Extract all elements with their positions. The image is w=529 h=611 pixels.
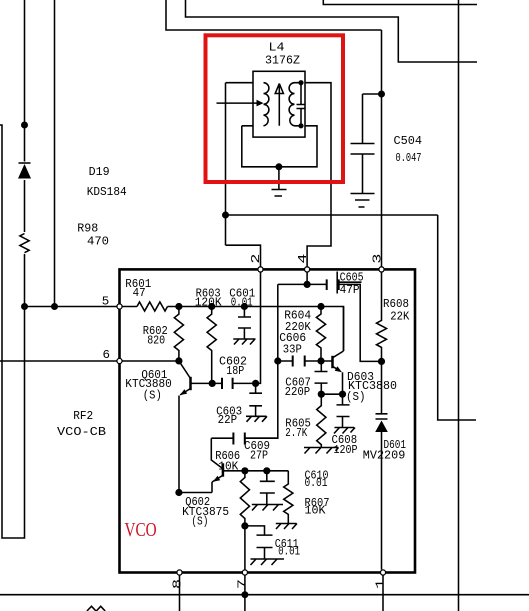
svg-text:22P: 22P xyxy=(218,414,238,427)
svg-text:5: 5 xyxy=(102,296,110,309)
svg-text:33P: 33P xyxy=(283,344,302,357)
svg-text:(S): (S) xyxy=(143,389,162,402)
svg-text:MV2209: MV2209 xyxy=(363,449,406,462)
svg-text:18P: 18P xyxy=(226,365,244,378)
svg-text:1: 1 xyxy=(375,579,388,589)
svg-text:120P: 120P xyxy=(334,444,358,457)
svg-text:2: 2 xyxy=(250,253,263,263)
svg-text:6: 6 xyxy=(103,349,111,362)
svg-text:C504: C504 xyxy=(394,135,423,148)
svg-text:7: 7 xyxy=(237,579,250,589)
svg-text:3: 3 xyxy=(372,253,385,263)
svg-text:220P: 220P xyxy=(285,386,311,399)
svg-text:R98: R98 xyxy=(77,222,98,235)
svg-text:KDS184: KDS184 xyxy=(87,186,127,199)
svg-text:10K: 10K xyxy=(305,504,326,517)
svg-text:D19: D19 xyxy=(89,166,110,179)
svg-text:RF2: RF2 xyxy=(73,410,93,423)
svg-text:4: 4 xyxy=(297,253,310,263)
svg-text:470: 470 xyxy=(87,236,109,249)
svg-text:2.7K: 2.7K xyxy=(285,427,307,440)
svg-text:VCO-CB: VCO-CB xyxy=(57,426,106,439)
svg-text:47: 47 xyxy=(133,287,146,300)
svg-text:0.047: 0.047 xyxy=(396,152,422,165)
svg-text:3176Z: 3176Z xyxy=(265,54,300,67)
svg-text:8: 8 xyxy=(172,579,185,589)
svg-text:27P: 27P xyxy=(250,450,268,463)
svg-text:820: 820 xyxy=(147,335,165,348)
svg-text:10K: 10K xyxy=(218,461,238,474)
svg-text:22K: 22K xyxy=(390,311,409,324)
svg-text:L4: L4 xyxy=(269,42,285,55)
svg-text:0.01: 0.01 xyxy=(231,297,253,310)
svg-text:0.01: 0.01 xyxy=(278,546,300,559)
svg-text:0.01: 0.01 xyxy=(305,477,328,490)
svg-text:120K: 120K xyxy=(195,297,222,310)
svg-text:R608: R608 xyxy=(383,298,409,311)
svg-text:VCO: VCO xyxy=(125,518,157,541)
svg-text:47P: 47P xyxy=(340,284,360,297)
svg-text:(S): (S) xyxy=(191,516,208,529)
svg-text:(S): (S) xyxy=(346,391,366,404)
